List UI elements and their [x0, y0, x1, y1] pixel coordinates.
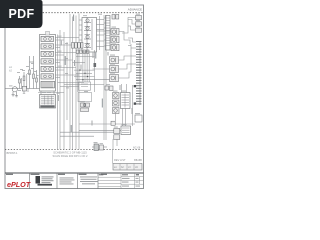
net wire V10 — [103, 15, 105, 140]
svg-text:REV LIST: REV LIST — [114, 158, 126, 162]
wire links top right — [119, 18, 136, 46]
component box X0 — [79, 82, 91, 90]
vertical divider below border — [112, 150, 114, 164]
svg-text:XX-XX: XX-XX — [134, 158, 142, 162]
address text cell — [60, 178, 75, 185]
resistor network RN2 row — [76, 50, 89, 53]
svg-text:SCAN PAGE 300 DPI 1 OF 2: SCAN PAGE 300 DPI 1 OF 2 — [53, 154, 88, 158]
label text left resistors — [9, 65, 12, 73]
net wire V9 — [94, 50, 96, 92]
parts P1 P2 (mid lower) — [105, 86, 113, 91]
transistor Q1 with circle — [5, 87, 40, 96]
bus wire V3 — [63, 32, 65, 149]
svg-text:PDF: PDF — [9, 7, 35, 21]
junction block N1 — [134, 85, 136, 87]
drop wires to U6 — [116, 109, 126, 127]
note text bottom centre — [53, 151, 88, 158]
ground symbol GND1 — [12, 95, 19, 97]
svg-text:ePLOT: ePLOT — [7, 180, 31, 189]
wire H136 — [60, 135, 94, 137]
svg-text:ADVANCE: ADVANCE — [128, 8, 142, 12]
transistor stack QB — [110, 57, 119, 82]
part P3 small box — [111, 121, 115, 125]
IC U6 cluster bottom right — [114, 126, 131, 139]
IC U4 (narrow vertical) — [106, 16, 111, 51]
wire links U3 to U4 — [97, 16, 105, 50]
wire H92 — [38, 92, 64, 94]
crystal Y1 cluster near bottom border — [92, 144, 107, 151]
wire H124 — [79, 123, 135, 125]
part D4 bottom of ladder — [135, 115, 142, 122]
junction dots mid band — [79, 70, 88, 81]
bus wire V7 — [75, 16, 77, 150]
bus wire V4 — [66, 42, 68, 120]
wire H130 — [79, 129, 121, 131]
drawing title cell — [80, 177, 98, 185]
microcontroller U2 (pin-grid block) — [40, 95, 56, 109]
wire H69 — [93, 68, 110, 70]
wire stubs U4 left — [104, 18, 106, 46]
discrete parts column right top D1-D3 — [136, 16, 142, 33]
svg-text:NC-08: NC-08 — [133, 147, 141, 150]
title block — [5, 173, 144, 189]
title block header dashes — [6, 174, 107, 175]
net wire V13 — [132, 85, 134, 126]
right table texts — [99, 174, 140, 186]
capacitor C1 block — [94, 63, 97, 67]
net label noise marks — [9, 14, 140, 144]
transistor stack QA — [111, 29, 119, 51]
main schematic drawing — [38, 14, 136, 150]
bus wire V2 — [59, 30, 61, 149]
transistor array U3 — [82, 18, 97, 53]
company logo block — [36, 176, 54, 186]
bus wire V1 — [57, 35, 59, 150]
wire H132 — [60, 131, 114, 133]
wire H rows from U1 — [56, 38, 80, 76]
ePLOT logo — [7, 180, 31, 189]
bus wire V6 — [72, 17, 74, 150]
wire H31 — [97, 30, 112, 32]
note text above dashed line right — [133, 147, 141, 150]
wire stubs U3 left — [79, 20, 82, 46]
plot area dashed border — [5, 13, 144, 150]
net wire V11 — [105, 15, 107, 140]
mid band wires — [64, 54, 110, 93]
vertical net label texts (blurred) — [65, 15, 103, 133]
resistor group extra stubs — [22, 74, 55, 95]
small parts top of U4 — [112, 15, 119, 20]
IC bank U1 (stack of buffer cells) — [40, 35, 56, 92]
component cluster X1 (below U3) — [78, 93, 92, 112]
junction block N2 — [134, 102, 136, 104]
note text above rev table — [114, 158, 142, 162]
transistor stack QC — [113, 93, 120, 114]
net wire V14 — [113, 139, 117, 149]
connector J1 (pin ladder) — [136, 41, 142, 105]
title block right table — [98, 173, 144, 189]
net wire V12 — [122, 84, 127, 93]
label smudges left resistors — [17, 68, 39, 76]
sheet outer border frame — [5, 5, 144, 189]
wire links right mid — [119, 44, 137, 78]
wire H86 — [60, 86, 79, 88]
wire stubs U1 second pins — [56, 40, 65, 78]
wire H82 — [58, 82, 85, 84]
note text top right — [128, 8, 142, 12]
resistor group R1-R5 (vertical discretes) — [19, 56, 38, 89]
svg-text:BPRNT-1: BPRNT-1 — [7, 151, 19, 155]
resistor network RN1 — [72, 43, 84, 49]
IC U5 — [121, 93, 131, 109]
spare gate box near badge — [46, 32, 50, 36]
bus wire V5 — [69, 14, 71, 149]
bus wire V8 — [78, 14, 80, 150]
note text below plot border left — [7, 151, 19, 155]
revision table — [113, 164, 142, 171]
svg-text:SCHEMATIC 2 OF MB-1115: SCHEMATIC 2 OF MB-1115 — [53, 151, 87, 155]
diode D5 on wire — [22, 86, 26, 91]
PDF badge — [0, 0, 43, 28]
